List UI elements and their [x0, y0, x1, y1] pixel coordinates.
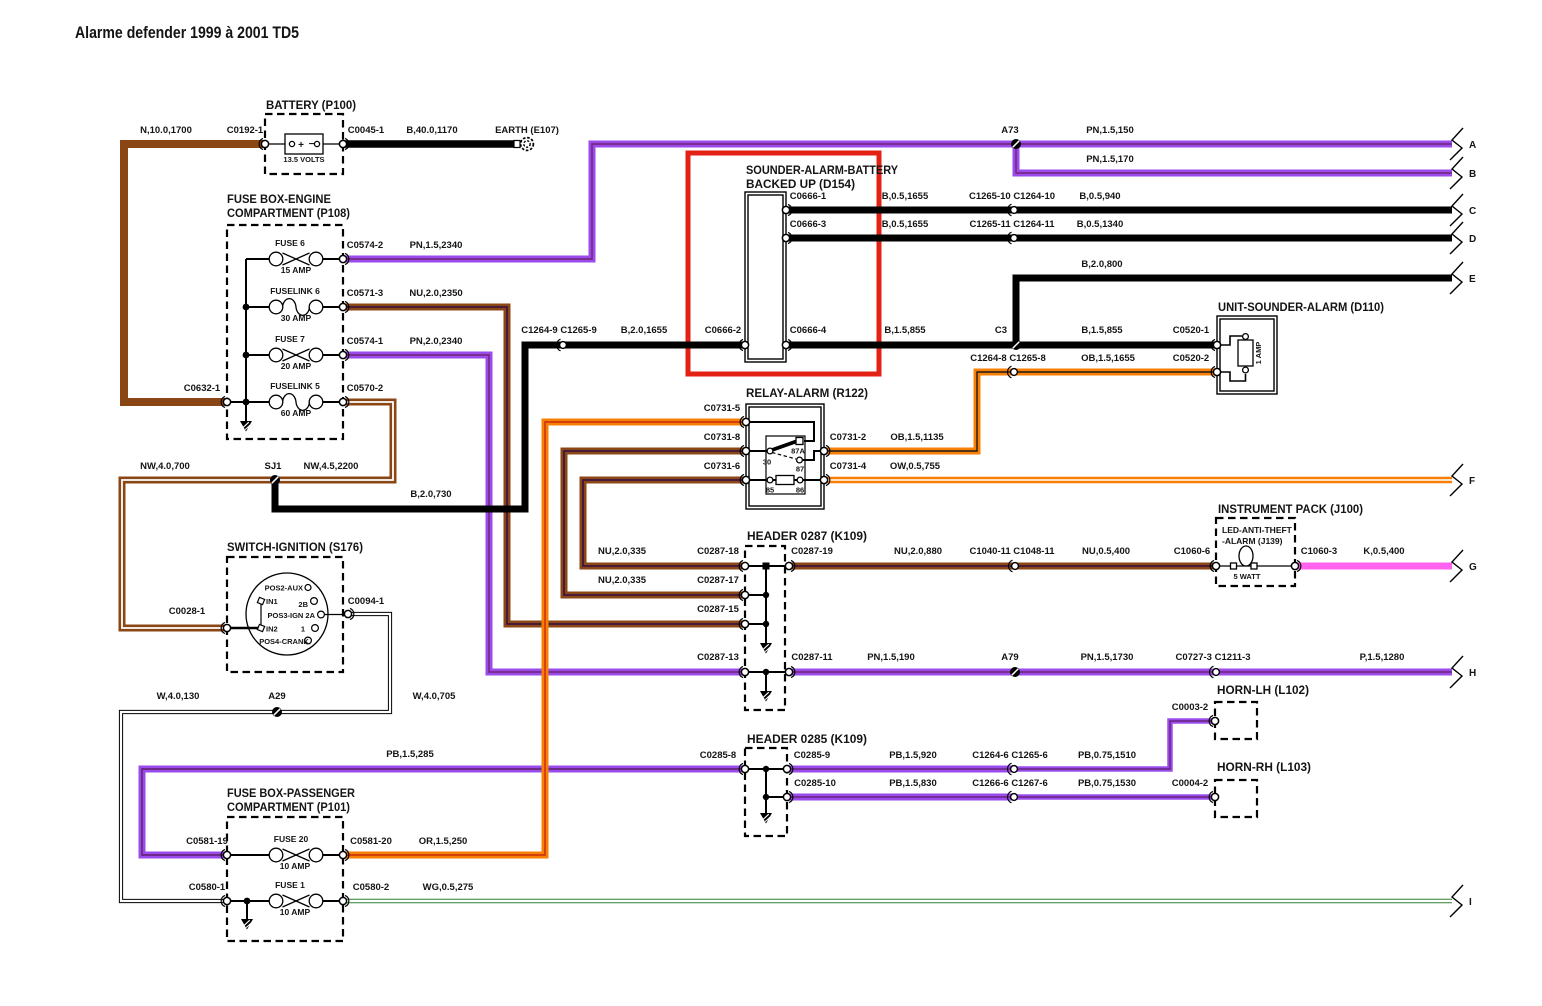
svg-text:FUSE 6: FUSE 6 — [275, 238, 305, 248]
svg-text:N,10.0,1700: N,10.0,1700 — [140, 125, 192, 136]
wire PN,2.0,2340 fuse7 to header C0287-13 — [343, 355, 745, 672]
svg-text:C0727-3 C1211-3: C0727-3 C1211-3 — [1176, 652, 1251, 663]
svg-text:C0574-1: C0574-1 — [347, 336, 384, 347]
svg-text:C0581-20: C0581-20 — [350, 836, 392, 847]
ground header 0287 upper — [760, 643, 772, 654]
svg-text:POS2-AUX: POS2-AUX — [265, 584, 303, 593]
svg-text:87: 87 — [796, 465, 804, 474]
svg-text:B,2.0,730: B,2.0,730 — [410, 489, 451, 500]
svg-text:HORN-LH (L102): HORN-LH (L102) — [1217, 683, 1309, 697]
connector pins — [259, 138, 268, 149]
junction dots on bus — [243, 304, 250, 311]
fuse box engine compartment P108 — [227, 225, 343, 439]
wire K,0.5,400 instrument pack to grid G — [1295, 563, 1452, 570]
svg-text:13.5 VOLTS: 13.5 VOLTS — [283, 155, 324, 164]
svg-text:C0731-8: C0731-8 — [704, 432, 740, 443]
svg-text:IN2: IN2 — [266, 625, 278, 634]
unit sounder 1 amp fuse symbol — [1217, 336, 1246, 381]
svg-text:C0632-1: C0632-1 — [184, 383, 221, 394]
svg-text:E: E — [1469, 274, 1476, 285]
ground header 0287 lower — [760, 691, 772, 702]
wire B,0.5,1655 / B,0.5,1340 sounder C0666-3 to grid D — [786, 235, 1452, 242]
svg-text:PN,2.0,2340: PN,2.0,2340 — [410, 336, 463, 347]
svg-text:NW,4.5,2200: NW,4.5,2200 — [304, 461, 359, 472]
svg-text:FUSE BOX-PASSENGER: FUSE BOX-PASSENGER — [227, 786, 355, 800]
svg-text:C0666-1: C0666-1 — [790, 191, 827, 202]
svg-text:HEADER 0285 (K109): HEADER 0285 (K109) — [747, 732, 867, 746]
fuse box P101 internal wires — [227, 855, 343, 919]
svg-text:-ALARM (J139): -ALARM (J139) — [1222, 536, 1283, 546]
svg-text:PN,1.5,2340: PN,1.5,2340 — [410, 240, 463, 251]
svg-text:Alarme defender 1999 à 2001 TD: Alarme defender 1999 à 2001 TD5 — [75, 23, 299, 42]
svg-text:B,0.5,940: B,0.5,940 — [1079, 191, 1120, 202]
svg-text:PB,0.75,1510: PB,0.75,1510 — [1078, 750, 1136, 761]
svg-text:C1060-3: C1060-3 — [1301, 546, 1337, 557]
svg-text:C0003-2: C0003-2 — [1172, 702, 1208, 713]
svg-text:A29: A29 — [268, 691, 285, 702]
svg-text:LED-ANTI-THEFT: LED-ANTI-THEFT — [1222, 525, 1293, 535]
header 0285 internal bus and ground — [745, 769, 787, 813]
svg-text:1 AMP: 1 AMP — [1254, 342, 1263, 365]
svg-text:C0028-1: C0028-1 — [169, 606, 206, 617]
svg-text:OB,1.5,1655: OB,1.5,1655 — [1081, 353, 1136, 364]
svg-text:C0731-6: C0731-6 — [704, 461, 740, 472]
wire NW,4.0,700 / NW,4.5,2200 fuselink5 via SJ1 to ignition switch — [122, 402, 393, 628]
svg-text:C1040-11 C1048-11: C1040-11 C1048-11 — [969, 546, 1055, 557]
svg-text:C0287-11: C0287-11 — [791, 652, 833, 663]
svg-text:C0045-1: C0045-1 — [348, 125, 385, 136]
svg-text:C0192-1: C0192-1 — [227, 125, 264, 136]
svg-text:IN1: IN1 — [266, 597, 278, 606]
wire PN,1.5,2340 / PN,1.5,150 fuse6 to grid A — [343, 144, 1452, 259]
battery symbol 13.5 volts — [265, 134, 343, 154]
svg-text:5 WATT: 5 WATT — [1234, 572, 1261, 581]
svg-text:POS3-IGN 2A: POS3-IGN 2A — [267, 611, 315, 620]
svg-text:SOUNDER-ALARM-BATTERY: SOUNDER-ALARM-BATTERY — [746, 163, 898, 177]
wire NU,2.0,335 relay C0731-8 to header C0287-17 — [564, 451, 746, 595]
svg-text:B,0.5,1655: B,0.5,1655 — [882, 219, 929, 230]
svg-text:1: 1 — [301, 625, 305, 634]
svg-text:C0731-2: C0731-2 — [830, 432, 866, 443]
svg-text:D: D — [1469, 234, 1476, 245]
horn RH box L103 — [1215, 780, 1257, 817]
header 0287 box K109 — [745, 546, 785, 710]
svg-text:COMPARTMENT (P101): COMPARTMENT (P101) — [227, 800, 350, 814]
svg-text:C0666-3: C0666-3 — [790, 219, 826, 230]
svg-text:C0287-17: C0287-17 — [697, 575, 739, 586]
svg-text:86: 86 — [796, 486, 804, 495]
instrument pack box J100 — [1216, 518, 1295, 586]
fuse box passenger compartment P101 — [227, 817, 343, 941]
splice A79 — [1010, 667, 1020, 677]
svg-text:B,2.0,800: B,2.0,800 — [1081, 259, 1122, 270]
svg-text:C0571-3: C0571-3 — [347, 288, 383, 299]
splice C3 — [1011, 340, 1021, 350]
svg-text:C0731-5: C0731-5 — [704, 403, 741, 414]
header 0285 box K109 — [745, 748, 787, 836]
fuse 1 — [269, 894, 323, 908]
led anti-theft alarm bulb J139 — [1216, 565, 1295, 567]
svg-text:G: G — [1469, 562, 1477, 573]
svg-text:F: F — [1469, 476, 1475, 487]
svg-text:30 AMP: 30 AMP — [281, 313, 312, 323]
ground header 0285 — [760, 813, 772, 824]
svg-text:C1264-8 C1265-8: C1264-8 C1265-8 — [970, 353, 1046, 364]
svg-text:EARTH (E107): EARTH (E107) — [495, 125, 559, 136]
svg-text:60 AMP: 60 AMP — [281, 408, 312, 418]
svg-text:C0570-2: C0570-2 — [347, 383, 383, 394]
sounder alarm D154 body — [745, 192, 786, 362]
wire B,0.5,1655 / B,0.5,940 sounder C0666-1 to grid C — [786, 207, 1452, 214]
splice A29 — [272, 707, 282, 717]
svg-text:FUSE 7: FUSE 7 — [275, 334, 305, 344]
svg-text:SJ1: SJ1 — [265, 461, 283, 472]
fuselink 5 — [269, 394, 323, 411]
svg-text:PN,1.5,170: PN,1.5,170 — [1086, 154, 1134, 165]
svg-text:PB,1.5,285: PB,1.5,285 — [386, 749, 434, 760]
svg-text:B,0.5,1340: B,0.5,1340 — [1077, 219, 1123, 230]
svg-text:WG,0.5,275: WG,0.5,275 — [423, 882, 474, 893]
svg-text:NU,0.5,400: NU,0.5,400 — [1082, 546, 1130, 557]
svg-text:PB,0.75,1530: PB,0.75,1530 — [1078, 778, 1136, 789]
svg-text:FUSE BOX-ENGINE: FUSE BOX-ENGINE — [227, 192, 331, 206]
svg-text:OW,0.5,755: OW,0.5,755 — [890, 461, 941, 472]
grid reference arrows A-I — [1450, 128, 1463, 160]
svg-text:K,0.5,400: K,0.5,400 — [1363, 546, 1404, 557]
svg-text:C0004-2: C0004-2 — [1172, 778, 1208, 789]
wire PN,1.5,170 branch to grid B — [1016, 144, 1452, 173]
svg-text:C0287-13: C0287-13 — [697, 652, 739, 663]
svg-text:−: − — [309, 139, 315, 150]
splice A73 — [1011, 139, 1021, 149]
wire PN,1.5,190 / PN,1.5,1730 / P,1.5,1280 header C0287-11 to grid H — [789, 669, 1452, 676]
svg-text:C0520-2: C0520-2 — [1173, 353, 1209, 364]
ignition switch rotary symbol — [246, 573, 328, 655]
svg-text:C0666-4: C0666-4 — [790, 325, 827, 336]
svg-text:NU,2.0,2350: NU,2.0,2350 — [409, 288, 462, 299]
svg-text:FUSELINK 5: FUSELINK 5 — [270, 381, 320, 391]
wire N,10.0,1700 battery to fuse box — [124, 144, 265, 402]
svg-text:C0580-1: C0580-1 — [189, 882, 226, 893]
svg-text:COMPARTMENT (P108): COMPARTMENT (P108) — [227, 206, 350, 220]
unit sounder alarm D110 body — [1217, 316, 1277, 394]
svg-text:C1264-9 C1265-9: C1264-9 C1265-9 — [521, 325, 597, 336]
svg-text:W,4.0,705: W,4.0,705 — [413, 691, 456, 702]
svg-text:HEADER 0287 (K109): HEADER 0287 (K109) — [747, 529, 867, 543]
svg-text:H: H — [1469, 668, 1476, 679]
svg-text:87A: 87A — [791, 447, 805, 456]
svg-text:30: 30 — [763, 458, 771, 467]
svg-text:INSTRUMENT PACK (J100): INSTRUMENT PACK (J100) — [1218, 502, 1363, 516]
wire NU,2.0,880 / NU,0.5,400 header C0287-19 to instrument pack — [789, 563, 1217, 570]
wire PB,1.5,830 / PB,0.75,1530 header C0285-10 to horn RH — [787, 794, 1014, 801]
fuselink 6 — [269, 299, 323, 316]
svg-text:A: A — [1469, 140, 1476, 151]
ground in fuse box P101 — [241, 919, 253, 930]
svg-text:C0285-9: C0285-9 — [794, 750, 830, 761]
wire PB,1.5,920 / PB,0.75,1510 header C0285-9 to horn LH — [787, 766, 1014, 773]
fuse box P108 internal bus — [227, 259, 343, 421]
svg-text:C1264-6 C1265-6: C1264-6 C1265-6 — [972, 750, 1048, 761]
relay R122 internals pins 30 87A 87 85 86 — [766, 436, 805, 494]
wire NU,2.0,335 relay C0731-6 to header C0287-18 — [583, 480, 746, 566]
wire OW,0.5,755 relay C0731-4 to grid F — [824, 477, 1452, 484]
switch ignition box S176 — [227, 557, 343, 672]
wire B,2.0,800 C3 to grid E — [1016, 278, 1452, 345]
svg-text:I: I — [1469, 897, 1472, 908]
svg-text:BATTERY (P100): BATTERY (P100) — [266, 98, 356, 112]
svg-text:FUSE 20: FUSE 20 — [274, 834, 309, 844]
svg-text:C0287-19: C0287-19 — [791, 546, 833, 557]
svg-text:C1265-11 C1264-11: C1265-11 C1264-11 — [969, 219, 1055, 230]
header 0287 internal bus and grounds — [745, 566, 789, 691]
svg-text:C0285-10: C0285-10 — [794, 778, 836, 789]
svg-text:C0287-18: C0287-18 — [697, 546, 739, 557]
wire NU,2.0,2350 fuselink6 to header C0287-15 — [343, 307, 745, 624]
svg-text:W,4.0,130: W,4.0,130 — [157, 691, 200, 702]
svg-text:10 AMP: 10 AMP — [280, 861, 311, 871]
svg-text:PN,1.5,190: PN,1.5,190 — [867, 652, 915, 663]
svg-text:85: 85 — [766, 486, 774, 495]
svg-text:PN,1.5,150: PN,1.5,150 — [1086, 125, 1134, 136]
wire PB,1.5,285 header C0285-8 to fuse20 — [142, 769, 745, 855]
svg-text:NU,2.0,880: NU,2.0,880 — [894, 546, 942, 557]
wire WG,0.5,275 fuse1 to grid I — [343, 899, 1452, 904]
svg-text:2B: 2B — [298, 600, 308, 609]
svg-text:C1060-6: C1060-6 — [1174, 546, 1210, 557]
relay alarm R122 body — [746, 404, 824, 509]
svg-text:B,2.0,1655: B,2.0,1655 — [621, 325, 668, 336]
svg-text:B,1.5,855: B,1.5,855 — [1081, 325, 1123, 336]
svg-text:POS4-CRANK: POS4-CRANK — [259, 637, 309, 646]
svg-text:BACKED UP (D154): BACKED UP (D154) — [746, 177, 855, 191]
splice SJ1 — [270, 475, 280, 485]
svg-text:FUSELINK 6: FUSELINK 6 — [270, 286, 320, 296]
svg-text:C: C — [1469, 206, 1476, 217]
svg-text:SWITCH-IGNITION (S176): SWITCH-IGNITION (S176) — [227, 540, 363, 554]
svg-text:PB,1.5,920: PB,1.5,920 — [889, 750, 937, 761]
svg-text:OB,1.5,1135: OB,1.5,1135 — [890, 432, 944, 443]
svg-text:C0581-19: C0581-19 — [186, 836, 228, 847]
svg-text:NU,2.0,335: NU,2.0,335 — [598, 546, 647, 557]
svg-text:A73: A73 — [1001, 125, 1018, 136]
svg-text:FUSE 1: FUSE 1 — [275, 880, 305, 890]
wire OR,1.5,250 fuse20 to relay C0731-5 — [343, 422, 746, 855]
svg-text:C0287-15: C0287-15 — [697, 604, 739, 615]
svg-text:UNIT-SOUNDER-ALARM (D110): UNIT-SOUNDER-ALARM (D110) — [1218, 300, 1384, 314]
svg-text:C0731-4: C0731-4 — [830, 461, 867, 472]
svg-text:C0666-2: C0666-2 — [705, 325, 741, 336]
svg-text:PB,1.5,830: PB,1.5,830 — [889, 778, 937, 789]
svg-text:10 AMP: 10 AMP — [280, 907, 311, 917]
wire B,1.5,855 sounder C0666-4 to unit sounder C0520-1 — [786, 342, 1217, 349]
wire B,40.0,1170 battery to earth — [343, 140, 514, 148]
wire OB,1.5,1135 / OB,1.5,1655 relay C0731-2 to unit sounder C0520-2 — [824, 372, 1217, 451]
earth E107 ring terminal — [514, 138, 533, 151]
svg-text:RELAY-ALARM (R122): RELAY-ALARM (R122) — [746, 386, 868, 400]
svg-text:+: + — [298, 140, 304, 151]
fuse 7 — [269, 348, 323, 362]
sounder-alarm-battery backed-up highlight box D154 — [688, 153, 879, 374]
svg-text:C0094-1: C0094-1 — [348, 596, 385, 607]
svg-text:OR,1.5,250: OR,1.5,250 — [419, 836, 468, 847]
svg-text:P,1.5,1280: P,1.5,1280 — [1360, 652, 1405, 663]
svg-text:B: B — [1469, 169, 1476, 180]
svg-text:NU,2.0,335: NU,2.0,335 — [598, 575, 647, 586]
svg-text:C0285-8: C0285-8 — [700, 750, 736, 761]
ground in fuse box P108 — [240, 421, 252, 432]
svg-text:HORN-RH (L103): HORN-RH (L103) — [1217, 760, 1311, 774]
svg-text:C1266-6 C1267-6: C1266-6 C1267-6 — [972, 778, 1048, 789]
svg-text:15 AMP: 15 AMP — [281, 265, 312, 275]
svg-text:20 AMP: 20 AMP — [281, 361, 312, 371]
svg-text:C0580-2: C0580-2 — [353, 882, 389, 893]
wire W,4.0,705 / W,4.0,130 ignition switch to fuse1 — [121, 614, 390, 901]
junction dot fuse1 — [244, 898, 251, 905]
inline connectors — [1007, 204, 1017, 216]
svg-text:NW,4.0,700: NW,4.0,700 — [140, 461, 190, 472]
svg-text:B,40.0,1170: B,40.0,1170 — [406, 125, 457, 136]
svg-text:PN,1.5,1730: PN,1.5,1730 — [1081, 652, 1134, 663]
battery box P100 — [265, 114, 343, 174]
fuse 6 — [269, 252, 323, 266]
svg-text:B,1.5,855: B,1.5,855 — [884, 325, 926, 336]
svg-text:C3: C3 — [995, 325, 1007, 336]
svg-text:B,0.5,1655: B,0.5,1655 — [882, 191, 929, 202]
horn LH box L102 — [1215, 702, 1257, 739]
svg-text:C0574-2: C0574-2 — [347, 240, 383, 251]
wire B,2.0,730 / B,2.0,1655 SJ1 to sounder C0666-2 — [275, 345, 745, 509]
svg-text:C1265-10 C1264-10: C1265-10 C1264-10 — [969, 191, 1055, 202]
fuse 20 — [269, 848, 323, 862]
svg-text:A79: A79 — [1001, 652, 1018, 663]
svg-text:C0520-1: C0520-1 — [1173, 325, 1210, 336]
